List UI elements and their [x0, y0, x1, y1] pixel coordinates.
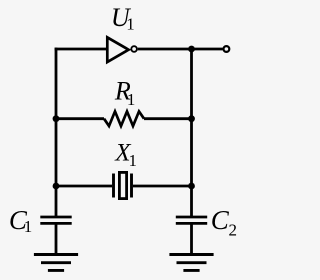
svg-text:1: 1 — [24, 217, 33, 236]
wire: top row input to inverter — [55, 48, 107, 51]
wire: X1 row left segment — [56, 185, 112, 188]
crystal X1 left plate — [112, 174, 115, 198]
node: output terminal open circle — [224, 46, 230, 52]
wire: R1 row left segment — [56, 117, 104, 120]
op-amp U1 inverter triangle — [107, 37, 128, 62]
svg-text:2: 2 — [229, 220, 238, 239]
wire: right rail vertical — [190, 49, 193, 217]
crystal X1 body rectangle — [119, 172, 126, 198]
wire: C2 to ground — [190, 223, 193, 254]
wire: left rail vertical — [55, 48, 58, 217]
node: junction dot top right — [188, 46, 195, 53]
node: junction dot X1 left — [53, 183, 60, 190]
node: junction dot R1 right — [188, 115, 195, 122]
node: junction dot R1 left — [53, 115, 60, 122]
capacitor C2 bottom plate — [176, 222, 207, 225]
capacitor C1 top plate — [40, 216, 71, 219]
svg-text:1: 1 — [129, 151, 138, 170]
U1 output bubble — [131, 46, 137, 52]
node: junction dot X1 right — [188, 183, 195, 190]
svg-text:1: 1 — [126, 14, 135, 33]
ground symbol left — [34, 255, 78, 271]
crystal X1 right plate — [130, 174, 133, 198]
wire: C1 to ground — [55, 223, 58, 254]
ground symbol right — [169, 255, 213, 271]
svg-text:1: 1 — [127, 90, 135, 109]
resistor R1 zigzag — [104, 111, 144, 126]
capacitor C2 top plate — [176, 216, 207, 219]
capacitor C1 bottom plate — [40, 222, 71, 225]
wire: R1 row right segment — [144, 117, 192, 120]
wire: X1 row right segment — [133, 185, 192, 188]
svg-text:C: C — [211, 205, 230, 235]
wire: inverter output to terminal — [138, 48, 223, 51]
